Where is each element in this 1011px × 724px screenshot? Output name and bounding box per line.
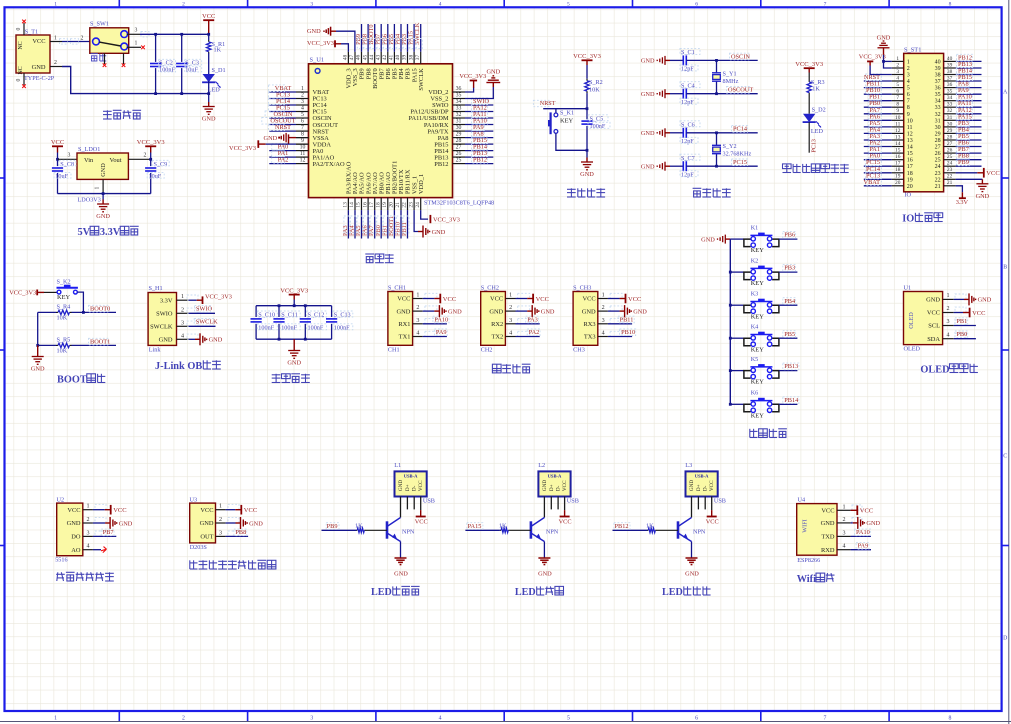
svg-text:PB5: PB5 xyxy=(784,331,795,338)
svg-text:2: 2 xyxy=(896,62,899,68)
svg-text:D-: D- xyxy=(703,485,709,491)
svg-text:4: 4 xyxy=(509,331,512,337)
svg-text:16: 16 xyxy=(907,158,913,164)
svg-text:10K: 10K xyxy=(57,348,68,355)
svg-text:33: 33 xyxy=(947,102,953,108)
svg-text:RX3: RX3 xyxy=(584,321,596,328)
svg-text:26: 26 xyxy=(947,148,953,154)
svg-text:36: 36 xyxy=(935,86,941,92)
svg-text:1: 1 xyxy=(602,293,605,299)
svg-text:GND: GND xyxy=(264,135,278,142)
svg-text:PB14: PB14 xyxy=(784,397,799,404)
svg-text:18: 18 xyxy=(895,167,901,173)
svg-text:2: 2 xyxy=(842,517,845,523)
svg-text:GND: GND xyxy=(119,520,133,527)
svg-text:2: 2 xyxy=(509,305,512,311)
svg-text:15: 15 xyxy=(895,148,901,154)
svg-text:13: 13 xyxy=(343,202,349,208)
svg-text:K3: K3 xyxy=(751,291,759,298)
svg-text:1K: 1K xyxy=(646,522,654,529)
svg-text:45: 45 xyxy=(362,55,368,61)
svg-text:18: 18 xyxy=(375,202,381,208)
svg-text:25: 25 xyxy=(947,154,953,160)
svg-text:CH2: CH2 xyxy=(481,347,493,354)
svg-text:SDA: SDA xyxy=(927,336,940,343)
svg-text:1: 1 xyxy=(509,293,512,299)
svg-text:TX3: TX3 xyxy=(584,334,596,341)
svg-text:VCC: VCC xyxy=(418,480,424,491)
svg-text:S_C4: S_C4 xyxy=(681,83,695,90)
svg-text:VCC_3V3: VCC_3V3 xyxy=(433,217,460,224)
svg-text:4: 4 xyxy=(439,716,442,722)
svg-text:6: 6 xyxy=(907,92,910,98)
svg-text:SWCLK: SWCLK xyxy=(414,22,421,44)
svg-text:PB9: PB9 xyxy=(327,523,338,530)
svg-text:1: 1 xyxy=(95,186,101,189)
svg-text:12: 12 xyxy=(907,131,913,137)
svg-text:3: 3 xyxy=(602,318,605,324)
svg-text:7: 7 xyxy=(907,99,910,105)
svg-text:VCC_3V3: VCC_3V3 xyxy=(459,73,486,80)
svg-text:GND: GND xyxy=(397,308,411,315)
svg-text:GND: GND xyxy=(394,571,408,578)
svg-text:1: 1 xyxy=(896,56,899,62)
svg-text:VDD_1: VDD_1 xyxy=(418,174,425,194)
svg-text:29: 29 xyxy=(456,132,462,138)
svg-text:IO: IO xyxy=(905,192,912,199)
svg-text:23: 23 xyxy=(947,167,953,173)
svg-text:11: 11 xyxy=(907,125,913,131)
svg-text:GND: GND xyxy=(689,480,695,491)
svg-text:100nF: 100nF xyxy=(308,325,324,332)
svg-text:S_R5: S_R5 xyxy=(57,337,71,344)
svg-text:GND: GND xyxy=(641,130,655,137)
svg-text:LED: LED xyxy=(811,128,824,135)
svg-text:PC14: PC14 xyxy=(733,126,748,133)
svg-text:S_CH1: S_CH1 xyxy=(388,285,406,292)
svg-text:5: 5 xyxy=(567,2,570,8)
svg-text:USB-A: USB-A xyxy=(548,474,562,479)
svg-text:USB: USB xyxy=(714,498,726,505)
svg-text:K2: K2 xyxy=(751,257,759,264)
svg-text:S_U1: S_U1 xyxy=(310,57,325,64)
svg-text:5: 5 xyxy=(567,716,570,722)
svg-text:GND: GND xyxy=(209,337,223,344)
svg-text:KEY: KEY xyxy=(560,118,574,125)
svg-text:S_C8: S_C8 xyxy=(60,161,74,168)
svg-text:PB13: PB13 xyxy=(784,363,798,370)
svg-text:30: 30 xyxy=(947,121,953,127)
svg-text:11: 11 xyxy=(895,121,900,127)
svg-text:GND: GND xyxy=(978,297,992,304)
svg-text:2: 2 xyxy=(81,36,84,42)
svg-text:NRST: NRST xyxy=(540,101,556,107)
svg-text:VCC: VCC xyxy=(536,296,549,303)
svg-text:S_ST1: S_ST1 xyxy=(904,47,921,54)
svg-text:IO: IO xyxy=(902,214,914,225)
svg-text:27: 27 xyxy=(947,141,953,147)
svg-text:10uF: 10uF xyxy=(185,67,198,74)
svg-text:46: 46 xyxy=(356,55,362,61)
svg-text:C: C xyxy=(1003,453,1007,459)
svg-text:GND: GND xyxy=(489,308,503,315)
svg-text:S_K2: S_K2 xyxy=(57,279,71,286)
svg-text:VCC_3V3: VCC_3V3 xyxy=(9,290,36,297)
svg-text:VCC_3V3: VCC_3V3 xyxy=(795,61,823,68)
svg-text:S_C6: S_C6 xyxy=(681,122,695,129)
svg-text:WIFI: WIFI xyxy=(802,519,809,532)
svg-text:RX1: RX1 xyxy=(398,321,410,328)
svg-text:1: 1 xyxy=(219,504,222,510)
svg-text:22: 22 xyxy=(402,202,408,208)
svg-text:31: 31 xyxy=(947,115,953,121)
svg-text:S_SW1: S_SW1 xyxy=(90,21,109,28)
svg-text:GND: GND xyxy=(582,308,596,315)
svg-text:PB7: PB7 xyxy=(103,529,114,536)
svg-text:3: 3 xyxy=(509,318,512,324)
svg-text:1: 1 xyxy=(416,293,419,299)
svg-text:5: 5 xyxy=(896,82,899,88)
svg-text:VCC: VCC xyxy=(67,507,80,514)
svg-text:USB-A: USB-A xyxy=(404,474,418,479)
svg-text:PB12: PB12 xyxy=(434,161,448,168)
svg-text:VCC: VCC xyxy=(860,508,873,515)
svg-text:GND: GND xyxy=(976,193,990,200)
svg-text:NPN: NPN xyxy=(693,529,706,536)
svg-text:BOOT0: BOOT0 xyxy=(90,305,110,312)
svg-text:GND: GND xyxy=(542,480,548,491)
svg-text:42: 42 xyxy=(382,55,388,61)
svg-text:KEY: KEY xyxy=(751,313,765,320)
svg-text:STM32F103C8T6_LQFP48: STM32F103C8T6_LQFP48 xyxy=(424,200,494,207)
svg-text:VCC: VCC xyxy=(972,310,985,317)
svg-text:36: 36 xyxy=(947,82,953,88)
svg-text:S_C9: S_C9 xyxy=(154,161,168,168)
svg-text:VCC: VCC xyxy=(244,507,257,514)
svg-text:32: 32 xyxy=(947,108,953,114)
svg-text:24: 24 xyxy=(935,164,941,170)
svg-text:20: 20 xyxy=(907,184,913,190)
svg-text:VCC_3V3: VCC_3V3 xyxy=(229,145,256,152)
svg-text:PB3: PB3 xyxy=(784,265,795,272)
svg-text:9: 9 xyxy=(301,138,304,144)
svg-text:RX2: RX2 xyxy=(491,321,503,328)
svg-text:S_C7: S_C7 xyxy=(681,155,695,162)
svg-text:U2: U2 xyxy=(57,497,65,504)
svg-text:32: 32 xyxy=(935,112,941,118)
svg-text:1: 1 xyxy=(54,36,57,42)
svg-text:37: 37 xyxy=(947,76,953,82)
svg-text:2: 2 xyxy=(219,517,222,523)
svg-text:38: 38 xyxy=(947,69,953,75)
svg-text:31: 31 xyxy=(456,119,462,125)
svg-text:6: 6 xyxy=(695,2,698,8)
svg-text:S_C13: S_C13 xyxy=(334,312,351,319)
svg-text:VBAT: VBAT xyxy=(864,179,881,186)
svg-text:GND: GND xyxy=(641,58,655,65)
svg-text:0: 0 xyxy=(16,78,22,81)
svg-text:7: 7 xyxy=(824,716,827,722)
svg-text:19: 19 xyxy=(907,177,913,183)
svg-text:LED: LED xyxy=(515,587,536,598)
svg-text:OLED: OLED xyxy=(904,346,921,353)
svg-text:31: 31 xyxy=(935,118,941,124)
svg-text:5: 5 xyxy=(301,112,304,118)
svg-text:7: 7 xyxy=(301,125,304,131)
svg-text:16: 16 xyxy=(362,202,368,208)
svg-text:5516: 5516 xyxy=(55,557,67,564)
svg-text:S_D1: S_D1 xyxy=(212,67,226,74)
svg-text:19: 19 xyxy=(895,174,901,180)
svg-text:PB9: PB9 xyxy=(958,159,969,166)
svg-text:4: 4 xyxy=(416,331,419,337)
svg-text:D-: D- xyxy=(556,485,562,491)
svg-text:VCC: VCC xyxy=(821,508,834,515)
svg-text:17: 17 xyxy=(369,202,375,208)
svg-text:L3: L3 xyxy=(685,462,692,469)
svg-text:VCC: VCC xyxy=(559,519,572,526)
svg-text:S_H1: S_H1 xyxy=(149,285,163,292)
svg-text:VCC: VCC xyxy=(562,480,568,491)
svg-text:S_CH2: S_CH2 xyxy=(481,285,499,292)
svg-text:TXD: TXD xyxy=(821,534,835,541)
svg-text:10uF: 10uF xyxy=(149,173,162,180)
svg-text:S_T1: S_T1 xyxy=(25,29,38,36)
svg-text:6: 6 xyxy=(896,89,899,95)
svg-text:PC15: PC15 xyxy=(733,159,747,166)
svg-text:PB4: PB4 xyxy=(784,298,796,305)
svg-text:8: 8 xyxy=(301,132,304,138)
svg-text:39: 39 xyxy=(402,55,408,61)
svg-text:TX1: TX1 xyxy=(399,334,411,341)
svg-text:8: 8 xyxy=(896,102,899,108)
svg-text:D: D xyxy=(1003,635,1007,641)
svg-text:3.3V: 3.3V xyxy=(100,227,121,238)
svg-text:1: 1 xyxy=(907,59,910,65)
svg-text:37: 37 xyxy=(415,54,421,60)
svg-text:1: 1 xyxy=(135,41,138,47)
svg-text:9: 9 xyxy=(896,108,899,114)
svg-text:1: 1 xyxy=(946,293,949,299)
svg-text:22: 22 xyxy=(947,174,953,180)
svg-text:GND: GND xyxy=(398,480,404,491)
svg-text:34: 34 xyxy=(456,99,462,105)
svg-text:VCC: VCC xyxy=(490,296,503,303)
svg-text:U1: U1 xyxy=(904,285,912,292)
svg-text:40: 40 xyxy=(395,54,401,60)
svg-text:VCC: VCC xyxy=(628,296,641,303)
svg-text:PA15: PA15 xyxy=(468,523,482,530)
svg-text:VCC: VCC xyxy=(706,519,719,526)
svg-text:21: 21 xyxy=(395,202,401,208)
svg-text:27: 27 xyxy=(456,145,462,151)
svg-text:3: 3 xyxy=(135,28,138,34)
svg-text:NC: NC xyxy=(18,41,24,49)
svg-text:19: 19 xyxy=(382,202,388,208)
svg-text:GND: GND xyxy=(159,337,173,344)
svg-text:VCC_3V3: VCC_3V3 xyxy=(280,287,308,294)
svg-text:4: 4 xyxy=(842,544,845,550)
svg-text:21: 21 xyxy=(947,180,953,186)
svg-text:14: 14 xyxy=(349,202,355,208)
svg-text:9: 9 xyxy=(907,112,910,118)
svg-text:20: 20 xyxy=(895,180,901,186)
svg-text:PB12: PB12 xyxy=(473,157,487,164)
svg-text:2: 2 xyxy=(602,305,605,311)
svg-text:D+: D+ xyxy=(696,484,702,491)
svg-text:8MHz: 8MHz xyxy=(723,78,739,85)
svg-text:1: 1 xyxy=(181,294,184,300)
svg-text:S_C12: S_C12 xyxy=(308,312,325,319)
svg-text:SWCLK: SWCLK xyxy=(196,319,218,326)
svg-text:2: 2 xyxy=(182,716,185,722)
svg-text:4: 4 xyxy=(439,2,442,8)
svg-text:VCC: VCC xyxy=(986,170,999,177)
svg-text:44: 44 xyxy=(369,54,375,60)
svg-text:39: 39 xyxy=(947,62,953,68)
svg-text:2: 2 xyxy=(416,305,419,311)
svg-text:OSCIN: OSCIN xyxy=(731,53,750,60)
svg-text:PB1: PB1 xyxy=(956,318,967,325)
svg-text:KEY: KEY xyxy=(751,280,765,287)
svg-text:VCC: VCC xyxy=(200,507,213,514)
svg-text:KEY: KEY xyxy=(751,412,765,419)
svg-text:12: 12 xyxy=(300,158,306,164)
svg-text:VCC: VCC xyxy=(443,296,456,303)
svg-text:7: 7 xyxy=(824,2,827,8)
svg-text:4: 4 xyxy=(907,79,910,85)
svg-text:4: 4 xyxy=(896,76,899,82)
svg-text:14: 14 xyxy=(907,145,913,151)
svg-text:2: 2 xyxy=(181,307,184,313)
svg-text:100nF: 100nF xyxy=(281,325,297,332)
svg-text:SWCLK: SWCLK xyxy=(150,324,173,331)
svg-text:1: 1 xyxy=(54,716,57,722)
svg-text:S_C5: S_C5 xyxy=(590,116,604,123)
svg-text:S_K1: S_K1 xyxy=(560,110,574,117)
svg-text:GND: GND xyxy=(200,520,214,527)
svg-text:2: 2 xyxy=(946,306,949,312)
svg-text:3: 3 xyxy=(219,530,222,536)
svg-text:6: 6 xyxy=(695,716,698,722)
svg-text:3: 3 xyxy=(181,320,184,326)
svg-text:10: 10 xyxy=(895,115,901,121)
svg-text:GND: GND xyxy=(685,571,699,578)
svg-text:3: 3 xyxy=(946,319,949,325)
svg-text:GND: GND xyxy=(249,520,263,527)
svg-text:3: 3 xyxy=(301,99,304,105)
svg-text:27: 27 xyxy=(935,145,941,151)
svg-text:PA2/TX/AO: PA2/TX/AO xyxy=(313,161,345,168)
svg-text:VCC: VCC xyxy=(927,310,940,317)
svg-text:Vin: Vin xyxy=(84,157,94,164)
svg-text:11: 11 xyxy=(300,151,306,157)
svg-text:PB0: PB0 xyxy=(956,331,967,338)
svg-text:OSCOUT: OSCOUT xyxy=(728,87,753,94)
svg-text:RXD: RXD xyxy=(821,547,835,554)
svg-text:GND: GND xyxy=(701,236,715,243)
svg-text:VCC: VCC xyxy=(415,519,428,526)
svg-text:B: B xyxy=(1003,264,1007,270)
svg-text:3: 3 xyxy=(416,318,419,324)
svg-text:PA2: PA2 xyxy=(529,329,540,336)
svg-text:GND: GND xyxy=(287,360,301,367)
svg-text:12pF: 12pF xyxy=(681,99,694,106)
svg-text:VCC: VCC xyxy=(32,38,45,45)
svg-text:D+: D+ xyxy=(405,484,411,491)
svg-text:24: 24 xyxy=(947,161,953,167)
svg-text:PB10: PB10 xyxy=(621,329,635,336)
svg-text:2: 2 xyxy=(907,66,910,72)
svg-text:4: 4 xyxy=(602,331,605,337)
svg-text:U4: U4 xyxy=(798,497,806,504)
svg-text:3: 3 xyxy=(310,2,313,8)
svg-text:1K: 1K xyxy=(499,522,507,529)
svg-text:23: 23 xyxy=(935,171,941,177)
svg-text:3: 3 xyxy=(842,530,845,536)
svg-text:32.768KHz: 32.768KHz xyxy=(723,150,752,157)
svg-text:41: 41 xyxy=(389,54,395,60)
svg-text:10K: 10K xyxy=(589,87,600,94)
svg-text:GND: GND xyxy=(31,366,45,373)
svg-text:35: 35 xyxy=(456,93,462,99)
svg-text:VBAT: VBAT xyxy=(275,85,292,92)
svg-text:K1: K1 xyxy=(751,224,759,231)
svg-text:40: 40 xyxy=(935,59,941,65)
svg-text:13: 13 xyxy=(895,134,901,140)
svg-text:1: 1 xyxy=(86,504,89,510)
svg-text:VCC_3V3: VCC_3V3 xyxy=(859,54,886,61)
svg-text:12pF: 12pF xyxy=(681,138,694,145)
svg-text:8: 8 xyxy=(949,2,952,8)
svg-text:38: 38 xyxy=(935,73,941,79)
svg-text:KEY: KEY xyxy=(57,294,71,301)
svg-text:7: 7 xyxy=(896,95,899,101)
svg-text:12pF: 12pF xyxy=(681,66,694,73)
svg-text:3: 3 xyxy=(310,716,313,722)
svg-text:5V: 5V xyxy=(78,227,91,238)
svg-text:12pF: 12pF xyxy=(681,171,694,178)
svg-text:S_Y1: S_Y1 xyxy=(723,71,737,78)
svg-text:SCL: SCL xyxy=(928,323,940,330)
svg-text:LED: LED xyxy=(371,587,392,598)
svg-text:Vout: Vout xyxy=(110,157,122,164)
svg-text:30: 30 xyxy=(935,125,941,131)
svg-text:29: 29 xyxy=(935,131,941,137)
svg-text:10: 10 xyxy=(300,145,306,151)
svg-text:1K: 1K xyxy=(812,86,820,93)
svg-text:SWIO: SWIO xyxy=(196,306,213,313)
svg-text:10uF: 10uF xyxy=(55,173,68,180)
svg-text:BOOT: BOOT xyxy=(57,375,87,386)
svg-text:VCC: VCC xyxy=(51,139,64,146)
svg-text:13: 13 xyxy=(907,138,913,144)
svg-text:GND: GND xyxy=(448,308,462,315)
svg-text:10: 10 xyxy=(907,118,913,124)
svg-text:PB12: PB12 xyxy=(615,523,629,530)
svg-text:S_C10: S_C10 xyxy=(258,312,275,319)
svg-text:GND: GND xyxy=(580,171,594,178)
svg-text:1: 1 xyxy=(54,2,57,8)
svg-text:USB: USB xyxy=(423,498,435,505)
svg-text:26: 26 xyxy=(935,151,941,157)
svg-text:1: 1 xyxy=(301,86,304,92)
svg-text:14: 14 xyxy=(895,141,901,147)
svg-text:1: 1 xyxy=(842,504,845,510)
svg-text:GND: GND xyxy=(432,229,446,236)
svg-text:21: 21 xyxy=(935,184,941,190)
svg-text:S_C11: S_C11 xyxy=(281,312,298,319)
